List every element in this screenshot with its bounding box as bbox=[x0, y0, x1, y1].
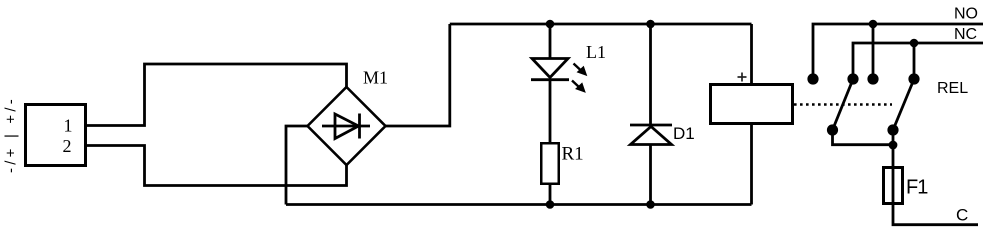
wire: coil to bottom rail bbox=[750, 124, 753, 205]
junction dot: D1 to top rail bbox=[646, 20, 655, 29]
svg-text:REL: REL bbox=[937, 80, 968, 97]
svg-text:C: C bbox=[956, 206, 968, 225]
svg-text:F1: F1 bbox=[906, 177, 928, 199]
svg-text:D1: D1 bbox=[673, 124, 695, 143]
contact dot NO1 bbox=[807, 73, 818, 84]
svg-text:2: 2 bbox=[63, 136, 72, 156]
relay contact arm 2 bbox=[893, 78, 915, 130]
contact dot NC2 bbox=[908, 73, 919, 84]
contact dot NO2 bbox=[867, 73, 878, 84]
wire: common 1 to common bus bbox=[833, 130, 894, 145]
svg-text:NC: NC bbox=[954, 26, 977, 43]
svg-text:1: 1 bbox=[64, 116, 73, 136]
junction dot: common bus bbox=[889, 141, 898, 150]
contact dot NC1 bbox=[847, 73, 858, 84]
wire: common 2 down through fuse to C terminal bbox=[893, 130, 978, 225]
junction dot: LED to top rail bbox=[546, 20, 555, 29]
relay contact arm 1 bbox=[833, 78, 854, 130]
svg-text:M1: M1 bbox=[363, 68, 388, 88]
svg-text:-/+ | +/-: -/+ | +/- bbox=[3, 96, 20, 173]
svg-text:NO: NO bbox=[954, 6, 978, 23]
junction dot: resistor branch to bottom rail bbox=[546, 200, 555, 209]
common dot 1 bbox=[827, 124, 838, 135]
diode D1 bbox=[630, 24, 672, 205]
wire: top rail to coil bbox=[750, 24, 753, 85]
coil polarity + mark bbox=[738, 73, 747, 82]
resistor R1 bbox=[541, 143, 559, 184]
wire: resistor to bottom rail bbox=[549, 184, 552, 205]
mechanical linkage (dotted) bbox=[794, 103, 892, 105]
relay coil bbox=[711, 85, 793, 124]
LED L1 bbox=[531, 24, 587, 143]
wire: terminal 1 to bridge AC input (top vertex) bbox=[85, 64, 347, 126]
fuse F1 bbox=[884, 168, 903, 204]
junction dot: D1 to bottom rail bbox=[646, 200, 655, 209]
wire: bridge DC- (left vertex) down to negative rail bbox=[286, 126, 308, 205]
wire: terminal 2 to bridge AC input (bottom vertex) bbox=[85, 146, 347, 186]
svg-text:L1: L1 bbox=[586, 42, 606, 62]
bridge rectifier M1 bbox=[308, 87, 386, 165]
junction dot on NC rail bbox=[910, 39, 919, 48]
wire: NO rail junction down to contact bbox=[872, 24, 875, 79]
wire: NC rail junction down to contact bbox=[913, 43, 916, 79]
wire: positive top rail bbox=[450, 23, 752, 26]
svg-text:R1: R1 bbox=[562, 144, 584, 165]
junction dot on NO rail bbox=[869, 20, 878, 29]
wire: negative bottom rail bbox=[286, 203, 752, 206]
NO terminal rail bbox=[813, 24, 983, 79]
common dot 2 bbox=[887, 124, 898, 135]
NC terminal rail bbox=[853, 43, 983, 79]
connector terminal block J1 bbox=[26, 105, 86, 166]
wire: bridge DC+ (right vertex) up to positive rail bbox=[386, 24, 450, 126]
